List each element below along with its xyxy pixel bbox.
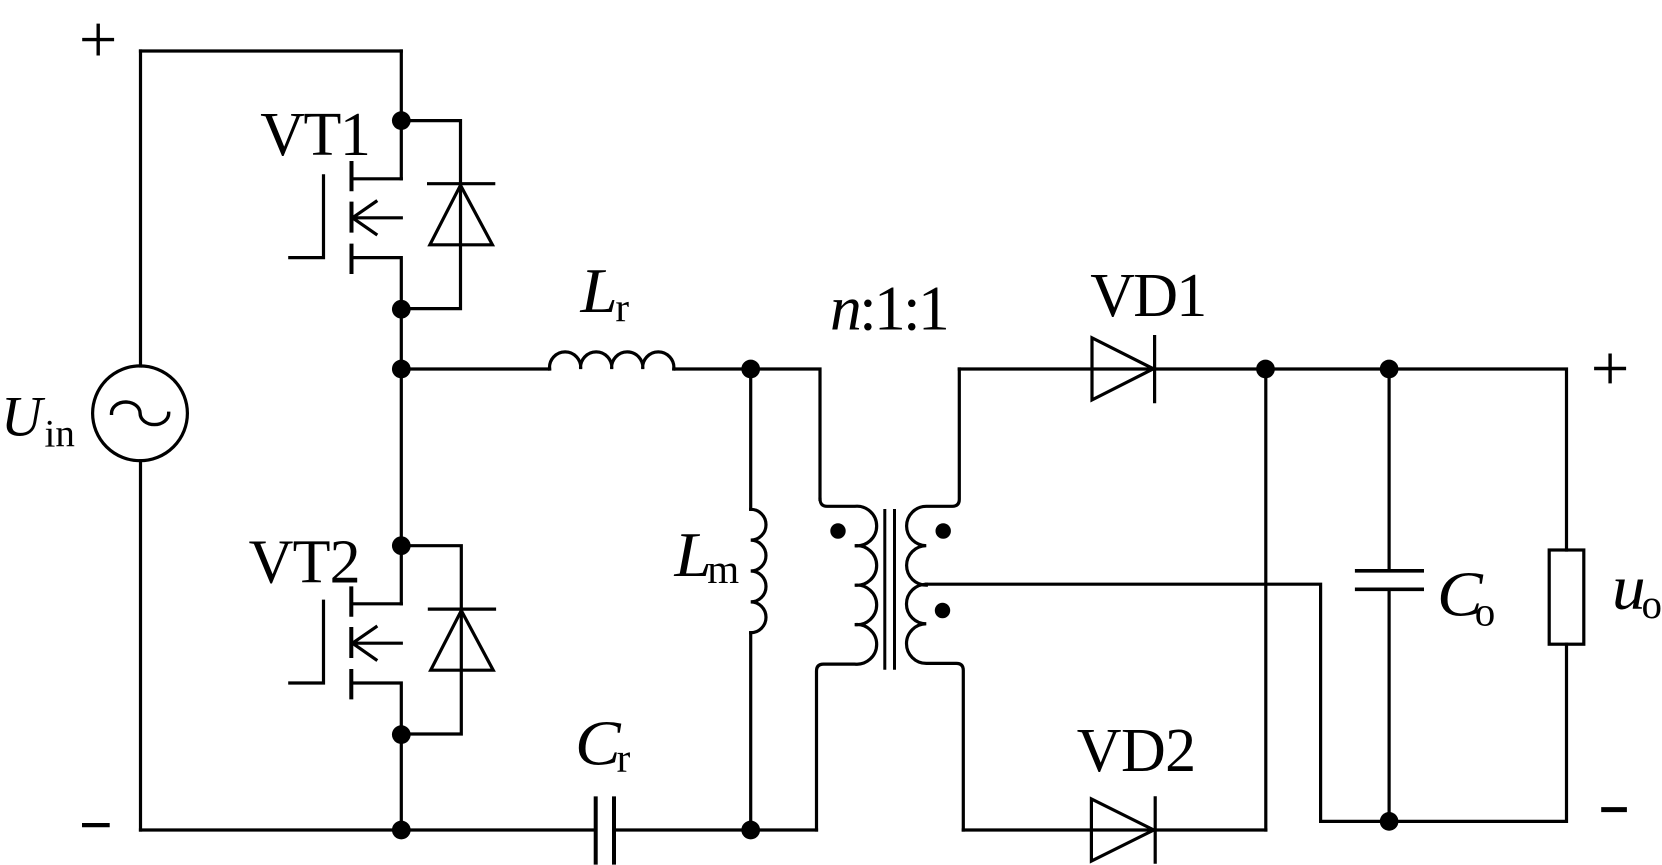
label uo [1612, 554, 1662, 627]
svg-text:L: L [673, 520, 711, 590]
diode VD2 [1091, 798, 1155, 862]
plus sign output [1594, 354, 1626, 384]
svg-text:VD1: VD1 [1090, 262, 1205, 330]
wire Lr to Lm node [674, 367, 751, 370]
inductor Lm [751, 369, 766, 830]
svg-text:U: U [1, 385, 46, 448]
wire from source bottom to bottom-left rail [139, 461, 142, 830]
transistor VT1 (MOSFET) [290, 121, 402, 310]
wire load bottom to output bottom rail [1321, 644, 1567, 821]
wire Co bottom lead [1387, 589, 1390, 821]
node junction Co bottom [1380, 812, 1399, 831]
svg-text:m: m [707, 546, 739, 592]
label Cr [575, 709, 631, 781]
svg-text:L: L [579, 257, 617, 327]
wire left drop from top rail to source top [139, 51, 142, 366]
node junction VT2 source on bottom rail [392, 821, 411, 840]
label Lm [673, 520, 739, 591]
wire VT2 source to bottom rail [400, 735, 403, 830]
wire mid node to Lr [401, 367, 549, 370]
capacitor Cr [596, 798, 614, 862]
node phase dot secondary top [936, 523, 951, 538]
label VD1 [1090, 262, 1205, 330]
svg-text:o: o [1642, 581, 1662, 627]
minus sign output [1601, 807, 1627, 812]
svg-text:r: r [617, 735, 631, 781]
label n:1:1 transformer ratio [830, 273, 947, 344]
plus sign input top-left [82, 24, 114, 56]
svg-text:o: o [1475, 589, 1496, 635]
wire VT1 top drain drop [400, 51, 403, 121]
wire secondary top to VD1 and to output node [959, 367, 1265, 370]
node junction Lm top [741, 360, 760, 379]
capacitor Co [1357, 571, 1423, 590]
transformer T1 core [885, 511, 895, 669]
transistor VT2 (MOSFET) [290, 546, 402, 735]
wire Co top lead [1387, 369, 1390, 569]
node phase dot primary [830, 523, 845, 538]
svg-text:r: r [615, 284, 629, 330]
svg-text:VT1: VT1 [260, 101, 369, 169]
label Lr [579, 257, 629, 331]
diode VT2 body diode [401, 546, 494, 734]
svg-text:n:1:1: n:1:1 [830, 273, 947, 344]
node junction Lm bottom on bottom rail [741, 821, 760, 840]
source U_in (AC source circle) [93, 366, 188, 461]
wire Lm node to transformer primary top [751, 369, 820, 499]
label U_in [1, 385, 75, 455]
wire top rail from source to VT1 drain [141, 49, 402, 52]
node junction VT1 drain/diode top [392, 111, 411, 130]
wire center tap to output bottom [926, 584, 1320, 821]
minus sign input bottom-left [82, 823, 110, 827]
wire VD2 cathode up to output node [1264, 369, 1267, 830]
svg-text:VT2: VT2 [249, 529, 360, 597]
svg-text:C: C [575, 709, 622, 779]
resistor load Ro [1549, 550, 1584, 644]
transformer T1 secondary winding bottom [906, 584, 963, 830]
diode VD1 [1092, 337, 1155, 402]
node junction VD1 cathode / output plus rail [1256, 360, 1275, 379]
label VT1 [260, 101, 369, 169]
label VD2 [1077, 717, 1196, 785]
label Co [1437, 560, 1495, 635]
wire Cr to transformer primary bottom corner [616, 828, 817, 831]
svg-text:in: in [45, 413, 75, 456]
node junction Co top [1380, 360, 1399, 379]
wire bottom-left rail to Cr [141, 828, 594, 831]
inductor Lr [550, 352, 674, 369]
node phase dot secondary bottom [935, 603, 950, 618]
node junction VT1 source/diode bottom [392, 300, 411, 319]
node junction half-bridge midpoint [392, 360, 411, 379]
node junction VT2 source/diode bottom [392, 725, 411, 744]
wire output plus rail [1266, 369, 1567, 550]
wire secondary bottom rail to VD2 [963, 828, 1266, 831]
svg-text:VD2: VD2 [1077, 717, 1196, 785]
diode VT1 body diode [401, 121, 493, 309]
node junction VT2 drain/diode top [392, 536, 411, 555]
label VT2 [249, 529, 360, 597]
wire VT1 mid to VT2 drain [400, 369, 403, 546]
transformer T1 primary winding [817, 499, 877, 830]
transformer T1 secondary winding top [907, 369, 960, 585]
wire VT1 source to mid node [400, 309, 403, 369]
